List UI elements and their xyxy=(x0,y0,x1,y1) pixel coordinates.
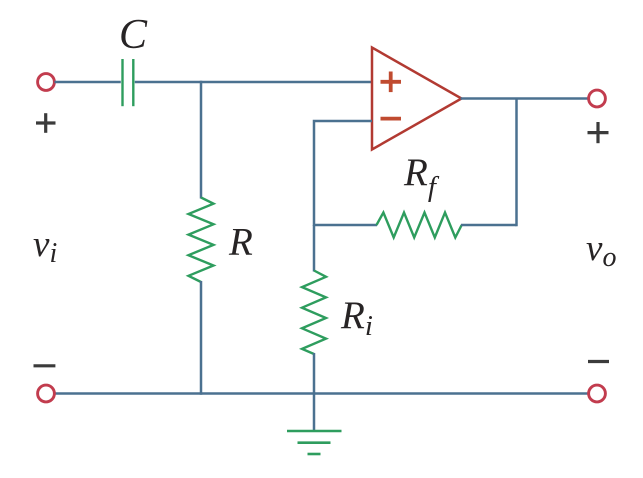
output terminal vo+ xyxy=(589,90,606,107)
op-amp noninverting pin + xyxy=(381,72,402,93)
op-amp inverting pin - xyxy=(381,117,402,121)
wire resistor R to bottom rail xyxy=(200,281,203,395)
minus sign output xyxy=(588,360,609,363)
plus sign input xyxy=(36,113,56,133)
svg-text:vi: vi xyxy=(33,224,57,269)
svg-text:vo: vo xyxy=(586,228,616,273)
svg-text:R: R xyxy=(228,221,253,264)
plus sign output xyxy=(588,122,609,143)
wire op-amp output to terminal xyxy=(461,97,589,100)
resistor Ri xyxy=(302,271,326,355)
resistor R xyxy=(189,198,214,283)
svg-text:Rf: Rf xyxy=(403,151,440,203)
wire junction to Rf xyxy=(314,224,377,227)
capacitor C xyxy=(123,59,134,106)
wire Ri to ground node xyxy=(313,353,316,431)
resistor Rf xyxy=(377,213,462,238)
ground xyxy=(287,431,342,454)
wire capacitor to op-amp noninverting input xyxy=(135,81,372,84)
bottom rail wire xyxy=(55,392,588,395)
wire input to capacitor xyxy=(55,81,121,84)
wire inverting input xyxy=(314,121,372,226)
svg-text:C: C xyxy=(119,12,148,58)
op-amp U1 xyxy=(372,48,462,150)
input terminal vi+ xyxy=(38,74,55,91)
wire output branch down xyxy=(515,98,518,227)
wire junction to Ri xyxy=(313,225,316,272)
svg-text:Ri: Ri xyxy=(340,294,373,342)
minus sign input xyxy=(34,364,56,367)
bottom-left terminal vi- xyxy=(38,385,55,402)
wire Rf to output branch xyxy=(461,224,517,227)
wire node to resistor R xyxy=(200,81,203,199)
bottom-right terminal vo- xyxy=(589,385,606,402)
